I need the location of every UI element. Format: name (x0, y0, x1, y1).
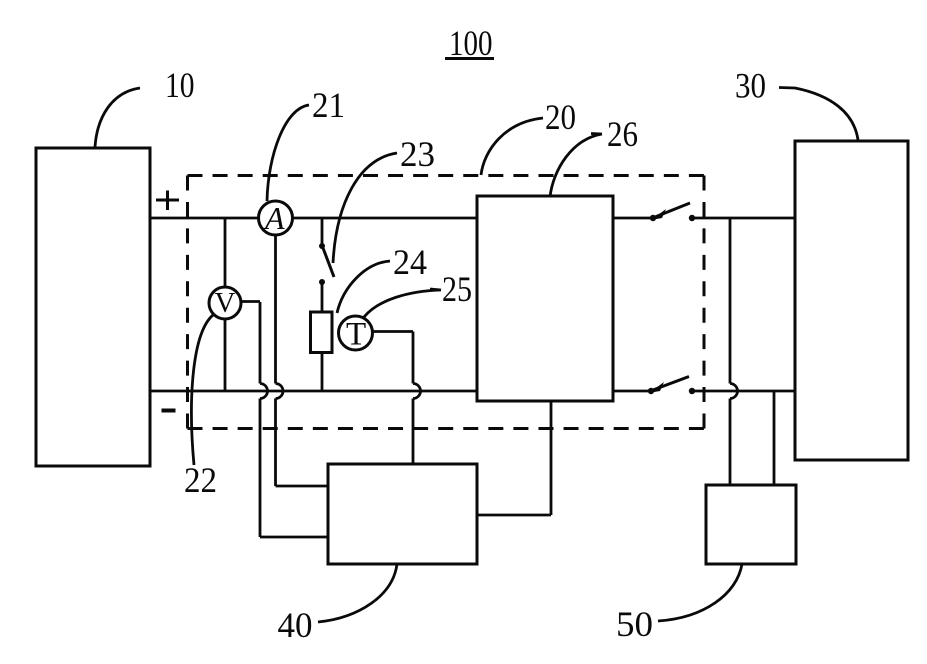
switch S2 top (26) (650, 203, 695, 221)
leader line 30 (779, 88, 858, 141)
svg-text:40: 40 (278, 605, 313, 645)
svg-text:24: 24 (393, 242, 427, 282)
svg-text:A: A (263, 200, 285, 236)
wire converter bottom to controller (477, 401, 551, 515)
title 100 (445, 23, 494, 63)
wire positive rail to block 50 (730, 218, 738, 485)
wire top positive rail (150, 217, 795, 220)
voltmeter V1 (22) (209, 287, 241, 319)
svg-text:23: 23 (400, 134, 435, 174)
switch S1 (23) (319, 218, 334, 312)
leader line 20 (481, 118, 543, 175)
svg-text:21: 21 (312, 85, 345, 125)
svg-text:25: 25 (442, 269, 472, 309)
svg-text:50: 50 (616, 604, 653, 644)
svg-text:20: 20 (545, 97, 576, 137)
temperature sensor T1 (25) (339, 316, 373, 353)
wire voltmeter top branch (224, 218, 227, 287)
dashed enclosure box (188, 176, 705, 429)
svg-text:T: T (346, 317, 366, 353)
leader line 50 (658, 564, 742, 621)
block 10 (power source) (36, 148, 150, 466)
svg-text:26: 26 (607, 114, 638, 154)
minus terminal label (162, 409, 176, 413)
switch S3 bottom (26) (648, 377, 695, 395)
svg-text:22: 22 (184, 460, 217, 500)
wire voltmeter sense line to controller (241, 302, 328, 538)
plus terminal label (156, 191, 179, 211)
wire ammeter sense line to controller (276, 235, 329, 486)
leader line 10 (95, 88, 140, 147)
wire temperature sensor to controller (373, 332, 421, 465)
leader line 40 (318, 564, 397, 622)
block 40 (controller) (328, 464, 477, 564)
svg-text:10: 10 (165, 65, 195, 105)
leader line 25 (364, 289, 441, 317)
block 20 (converter) (477, 196, 613, 401)
svg-text:30: 30 (735, 66, 766, 106)
wire voltmeter bottom branch (224, 319, 227, 391)
leader line 22 (191, 315, 213, 465)
ammeter A1 (21) (259, 200, 293, 236)
leader line 24 (337, 261, 390, 313)
svg-text:V: V (215, 287, 236, 319)
resistor R1 (24) (311, 312, 333, 353)
leader line 21 (267, 105, 309, 201)
leader line 26 (550, 134, 602, 198)
wire bottom negative rail (150, 390, 795, 393)
leader line 23 (333, 153, 397, 263)
wire resistor bottom to negative rail (321, 353, 324, 392)
wire negative rail to block 50 (773, 391, 776, 485)
block 50 (auxiliary) (706, 485, 796, 564)
block 30 (load) (795, 141, 908, 460)
